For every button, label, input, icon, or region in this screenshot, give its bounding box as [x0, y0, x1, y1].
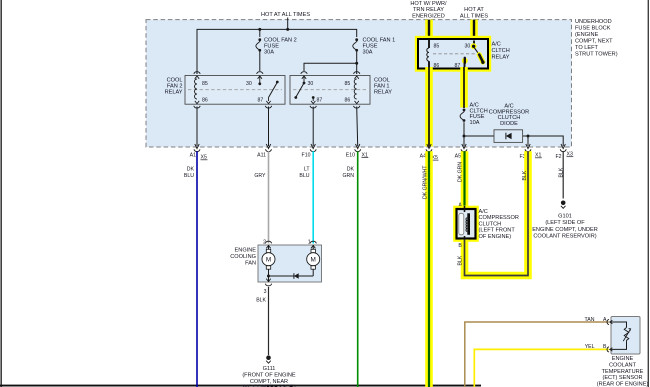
- fuse: COOL FAN 2 FUSE 30A: [256, 29, 297, 55]
- svg-text:G111: G111: [263, 366, 276, 372]
- svg-text:RELAY: RELAY: [165, 90, 183, 96]
- wire: YEL from ECT sensor B down to bottom edge: [474, 344, 609, 387]
- svg-text:BLK: BLK: [558, 167, 564, 177]
- svg-text:BLU: BLU: [299, 173, 309, 179]
- svg-text:30: 30: [308, 81, 314, 87]
- label: HOT AT ALL TIMES (right feed): [460, 7, 489, 19]
- svg-text:87: 87: [455, 63, 461, 69]
- svg-text:B: B: [603, 344, 607, 350]
- wire: clutch B BLK loop up to connector F3 (yellow highlighted): [458, 151, 529, 275]
- wire: relay1 86 to connector E10: [357, 107, 358, 147]
- connector A4/X5: [420, 144, 439, 161]
- svg-text:3: 3: [264, 289, 267, 295]
- svg-text:E10: E10: [346, 153, 355, 159]
- svg-text:DIODE: DIODE: [500, 121, 518, 127]
- svg-text:86: 86: [202, 98, 208, 104]
- switch: relay 2 contact: [258, 76, 278, 101]
- connector A5: [455, 144, 467, 160]
- switch: A/C relay contact (yellow highlighted blade): [462, 41, 485, 68]
- svg-text:87: 87: [258, 98, 264, 104]
- pin cup: fan pin 3: [265, 279, 271, 286]
- wire: fan fuse bus with ends down to relay pins: [197, 29, 357, 74]
- ground G101: [532, 201, 598, 240]
- svg-text:STRUT TOWER): STRUT TOWER): [575, 52, 618, 58]
- component: A/C COMPRESSOR CLUTCH (yellow highlighted): [457, 202, 519, 241]
- wire: fuse to connector A5: [463, 122, 465, 146]
- svg-text:BLK: BLK: [256, 298, 266, 304]
- thermistor symbol: [624, 328, 629, 343]
- junction: fan internal: [267, 275, 270, 278]
- pin cup: fan pin 2: [265, 241, 271, 248]
- wire: fuse 2 to relay 2 pin 30: [259, 52, 261, 71]
- sensor: ENGINE COOLANT TEMPERATURE (ECT): [597, 317, 649, 387]
- svg-text:A/C: A/C: [479, 209, 488, 215]
- wire: fuse 1 to relay 1 pins 30 and 85: [304, 52, 357, 74]
- wire: relay2 87 to connector A11: [268, 107, 270, 147]
- svg-text:(LEFT SIDE OF: (LEFT SIDE OF: [545, 220, 585, 226]
- wire: A1 DK BLU down to bottom edge: [184, 151, 197, 387]
- connector E10/X1: [346, 144, 369, 159]
- connector F2/X3: [555, 144, 573, 160]
- svg-text:ALL TIMES: ALL TIMES: [460, 13, 489, 19]
- wire: diode branch to F3 and F2: [464, 136, 563, 146]
- svg-text:CLTCH: CLTCH: [492, 48, 510, 54]
- diode: fan internal: [294, 273, 299, 279]
- svg-text:F2: F2: [555, 154, 561, 160]
- svg-text:30: 30: [246, 81, 252, 87]
- relay: COOL FAN 2 RELAY: [165, 76, 285, 105]
- svg-text:BLU: BLU: [184, 173, 194, 179]
- junction: bus / feed drop: [286, 28, 289, 31]
- label: A/C CLTCH RELAY: [492, 42, 510, 61]
- svg-text:BLK: BLK: [458, 255, 464, 265]
- connector A1/X5: [190, 144, 208, 161]
- svg-text:YEL: YEL: [585, 344, 595, 350]
- switch: relay 1 contact: [294, 76, 314, 101]
- wire: B+ feed to A/C relay pin 30 (yellow highlighted): [470, 20, 478, 41]
- svg-text:COOLANT RESERVOIR): COOLANT RESERVOIR): [533, 234, 596, 240]
- junction: fuse 1 branch: [355, 62, 358, 65]
- coil: relay 1 (85-86): [354, 79, 357, 99]
- svg-text:HOT AT: HOT AT: [464, 7, 484, 13]
- svg-text:BLK: BLK: [522, 170, 528, 180]
- wire: fan pin 3 BLK to ground G111: [256, 287, 268, 355]
- svg-text:85: 85: [345, 81, 351, 87]
- svg-text:HOT W/ PWR/: HOT W/ PWR/: [410, 1, 447, 7]
- svg-text:HOT AT ALL TIMES: HOT AT ALL TIMES: [261, 12, 310, 18]
- pin cup: relay2 85 (top): [194, 72, 200, 79]
- junction: F3 drop: [527, 135, 530, 138]
- fuse: A/C CLTCH FUSE 10A: [460, 103, 488, 126]
- svg-text:M: M: [266, 257, 271, 264]
- svg-text:ENGINE: ENGINE: [612, 356, 634, 362]
- pin cup: relay1 87 (bottom): [310, 101, 316, 108]
- svg-text:A5: A5: [455, 154, 461, 160]
- pin cup: relay2 86 (bottom): [194, 101, 200, 108]
- svg-text:86: 86: [345, 98, 351, 104]
- svg-text:COMPRESSOR: COMPRESSOR: [479, 215, 519, 221]
- svg-text:A/C: A/C: [492, 42, 501, 48]
- wire: B+ feed to A/C relay pin 85 (yellow highlighted): [425, 20, 433, 41]
- pin cup: relay1 30 (top): [301, 72, 307, 79]
- svg-text:A4: A4: [420, 154, 426, 160]
- svg-text:FUSE BLOCK: FUSE BLOCK: [575, 26, 611, 32]
- underhood fuse block (dashed outline box): [146, 20, 572, 147]
- svg-text:CLUTCH: CLUTCH: [479, 221, 502, 227]
- junction: diode branch tap: [463, 135, 466, 138]
- wire: F10 LT BLU to cooling fan pin 1: [299, 151, 313, 243]
- svg-text:30: 30: [465, 44, 471, 50]
- svg-text:DK GRN: DK GRN: [458, 162, 464, 182]
- svg-text:ENGINE: ENGINE: [235, 248, 257, 254]
- pin cup: fan pin 1: [310, 241, 316, 248]
- svg-text:GRY: GRY: [254, 173, 266, 179]
- svg-text:OF ENGINE): OF ENGINE): [479, 234, 512, 240]
- label: UNDERHOOD FUSE BLOCK location note: [575, 19, 618, 58]
- coil: A/C relay (85-86): [427, 40, 429, 68]
- svg-text:UNDERHOOD: UNDERHOOD: [575, 19, 612, 25]
- junction: bus / fuse 2 tap: [258, 28, 261, 31]
- wire: F2 BLK to ground G101: [558, 151, 564, 198]
- wire: TAN from ECT sensor A down to bottom edge: [465, 317, 609, 387]
- svg-text:(ENGINE: (ENGINE: [575, 32, 599, 38]
- svg-text:TRN RELAY: TRN RELAY: [413, 7, 444, 13]
- label: HOT W/ PWR/ TRN RELAY ENERGIZED: [410, 1, 447, 19]
- svg-text:TEMPERATURE: TEMPERATURE: [602, 369, 644, 375]
- svg-text:(LEFT FRONT: (LEFT FRONT: [479, 228, 516, 234]
- svg-text:B: B: [458, 243, 462, 249]
- svg-text:M: M: [311, 257, 316, 264]
- svg-text:GRN: GRN: [342, 173, 354, 179]
- svg-text:(ECT) SENSOR: (ECT) SENSOR: [602, 375, 642, 381]
- svg-text:A1: A1: [190, 153, 196, 159]
- fuse: COOL FAN 1 FUSE 30A: [353, 38, 396, 56]
- pin cup: relay1 85 (top): [354, 72, 360, 79]
- pin cup: relay1 86 (bottom): [354, 101, 360, 108]
- svg-text:TAN: TAN: [585, 317, 595, 323]
- svg-text:(REAR OF ENGINE): (REAR OF ENGINE): [597, 382, 649, 387]
- wire: A11 GRY to cooling fan pin 2: [254, 151, 268, 243]
- svg-text:FAN: FAN: [245, 261, 256, 267]
- svg-text:LT: LT: [304, 167, 310, 173]
- svg-text:F10: F10: [302, 153, 311, 159]
- svg-text:RELAY: RELAY: [492, 55, 510, 61]
- wire: A/C relay 86 to connector A4 (yellow highlighted, BLK core): [425, 67, 433, 147]
- svg-text:87: 87: [317, 98, 323, 104]
- connector F10: [302, 144, 317, 159]
- wire: relay1 87 to connector F10: [312, 107, 314, 147]
- svg-text:ENGINE COMPT, UNDER: ENGINE COMPT, UNDER: [532, 227, 598, 233]
- svg-text:DK GRN/WHT: DK GRN/WHT: [423, 165, 429, 199]
- wire: feed drop from HOT AT ALL TIMES to fuse bus: [287, 18, 289, 30]
- coil: relay 2 (85-86): [195, 79, 198, 99]
- wire: fan internal bus to pin 3: [269, 276, 314, 282]
- svg-text:DK: DK: [347, 167, 355, 173]
- svg-text:(FRONT OF ENGINE: (FRONT OF ENGINE: [242, 373, 296, 379]
- wire: A4 DK GRN/WHT (yellow highlighted) down to bottom edge: [423, 151, 430, 387]
- svg-text:30A: 30A: [363, 50, 373, 56]
- svg-text:85: 85: [434, 44, 440, 50]
- wire: A/C relay 87 to A/C CLTCH FUSE (yellow highlighted): [460, 67, 468, 108]
- wire: relay2 86 to connector A1: [196, 107, 198, 147]
- svg-text:DK: DK: [187, 167, 195, 173]
- pin cup: relay2 30 (top): [257, 72, 263, 79]
- pin cup: relay2 87 (bottom): [265, 101, 271, 108]
- wire: E10 DK GRN down to bottom edge: [342, 151, 357, 387]
- ground G111: [242, 355, 296, 387]
- svg-text:A: A: [603, 317, 607, 323]
- diode: A/C compressor clutch diode: [489, 104, 529, 143]
- svg-text:COOLING: COOLING: [230, 254, 256, 260]
- svg-text:COMPT, NEXT: COMPT, NEXT: [575, 39, 613, 45]
- svg-text:ENERGIZED: ENERGIZED: [412, 13, 445, 19]
- motor M (right, fan 1): [307, 245, 320, 276]
- svg-text:85: 85: [202, 81, 208, 87]
- svg-text:86: 86: [434, 63, 440, 69]
- wire: A5 DK GRN (yellow highlighted) to compressor clutch A: [458, 151, 465, 208]
- svg-text:G101: G101: [558, 214, 572, 220]
- relay: A/C CLTCH RELAY (yellow highlighted): [418, 39, 488, 69]
- connector A11: [257, 144, 271, 159]
- svg-text:RELAY: RELAY: [374, 90, 392, 96]
- relay: COOL FAN 1 RELAY: [290, 76, 392, 105]
- svg-text:A11: A11: [257, 153, 266, 159]
- motor M (left, fan 2): [262, 245, 275, 276]
- svg-text:COOLANT: COOLANT: [609, 362, 637, 368]
- component: ENGINE COOLING FAN (dual motors): [230, 239, 321, 282]
- svg-text:30A: 30A: [264, 50, 274, 56]
- connector F3/X1: [519, 144, 541, 160]
- svg-text:TO LEFT: TO LEFT: [575, 45, 598, 51]
- svg-text:10A: 10A: [470, 120, 480, 126]
